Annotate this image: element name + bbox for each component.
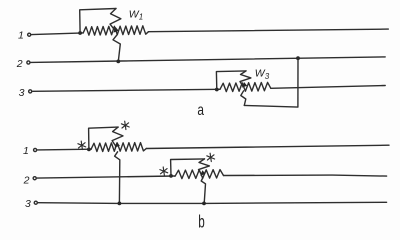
wire: R1* wiper tap down to line 3 xyxy=(115,152,120,204)
potentiometer W1 resistor body xyxy=(83,26,148,35)
terminal circle line 1 (diagram a) xyxy=(28,33,31,36)
asterisk marker (R2* top) xyxy=(207,153,215,161)
wire: R2* wiper tap down to line 3 xyxy=(201,178,205,204)
asterisk marker (R1* left) xyxy=(78,141,86,149)
node: junction dot W3 return on line 2 xyxy=(296,56,300,60)
terminal circle line 2 (diagram a) xyxy=(27,61,30,64)
node: junction dot R2* tap on line 3 xyxy=(202,202,206,206)
wire: W1 wiper tap down to line 2 xyxy=(113,35,120,61)
wire line 2 (diagram a) xyxy=(31,57,385,63)
svg-text:3: 3 xyxy=(19,87,25,99)
potentiometer W3 resistor body xyxy=(220,82,271,91)
wire: W1 bypass loop (left end to wiper) xyxy=(80,9,116,34)
W1 wiper arrow xyxy=(110,9,121,31)
terminal circle line 3 (diagram b) xyxy=(34,201,37,204)
wire line 3 (diagram b) xyxy=(38,202,386,203)
wire line 3 right segment (diagram a) xyxy=(271,86,385,89)
node: junction dot line2 / pot loop (diagram b) xyxy=(169,174,173,178)
wire line 1 right segment (diagram b) xyxy=(146,145,389,148)
wire line 2 right segment (diagram b) xyxy=(224,175,387,176)
R2* wiper arrow xyxy=(199,159,210,174)
terminal circle line 3 (diagram a) xyxy=(29,90,32,93)
wire line 2 left segment (diagram b) xyxy=(37,176,174,178)
svg-text:3: 3 xyxy=(25,198,31,210)
node: junction dot line1 / pot loop (diagram b) xyxy=(87,148,91,152)
R1* wiper arrow xyxy=(112,127,123,146)
node: junction dot line3 / W3 loop xyxy=(215,88,219,92)
svg-text:2: 2 xyxy=(23,175,30,187)
svg-text:b: b xyxy=(198,212,205,232)
W3 wiper arrow xyxy=(240,71,251,86)
node: junction dot R1* tap on line 3 xyxy=(118,202,122,206)
potentiometer R2* resistor body (diagram b) xyxy=(175,170,224,179)
wire line 1 left segment (diagram b) xyxy=(38,148,92,151)
terminal circle line 2 (diagram b) xyxy=(33,177,36,180)
svg-text:a: a xyxy=(197,100,204,118)
wire: R1* bypass loop xyxy=(89,127,119,149)
wire: W3 wiper tap down xyxy=(241,91,246,106)
svg-text:1: 1 xyxy=(23,145,29,157)
wire line 3 left segment (diagram a) xyxy=(33,89,220,91)
asterisk marker (R2* left) xyxy=(160,167,168,175)
wire line 1 right segment (diagram a) xyxy=(149,29,389,32)
wire: R2* bypass loop xyxy=(171,159,205,176)
svg-text:1: 1 xyxy=(18,30,24,42)
asterisk marker (R1* top) xyxy=(121,121,129,129)
wire: W3 bottom return (down-right-up to line 2) xyxy=(244,58,298,107)
wire line 1 left segment (diagram a) xyxy=(32,33,84,35)
node: junction dot W1 tap on line 2 xyxy=(116,60,120,64)
terminal circle line 1 (diagram b) xyxy=(34,148,37,151)
potentiometer R1* resistor body (diagram b) xyxy=(91,143,146,152)
wire: W3 bypass loop (left end to wiper) xyxy=(216,71,246,90)
svg-text:2: 2 xyxy=(16,58,23,70)
node: junction dot line1 / W1 loop xyxy=(78,31,82,35)
